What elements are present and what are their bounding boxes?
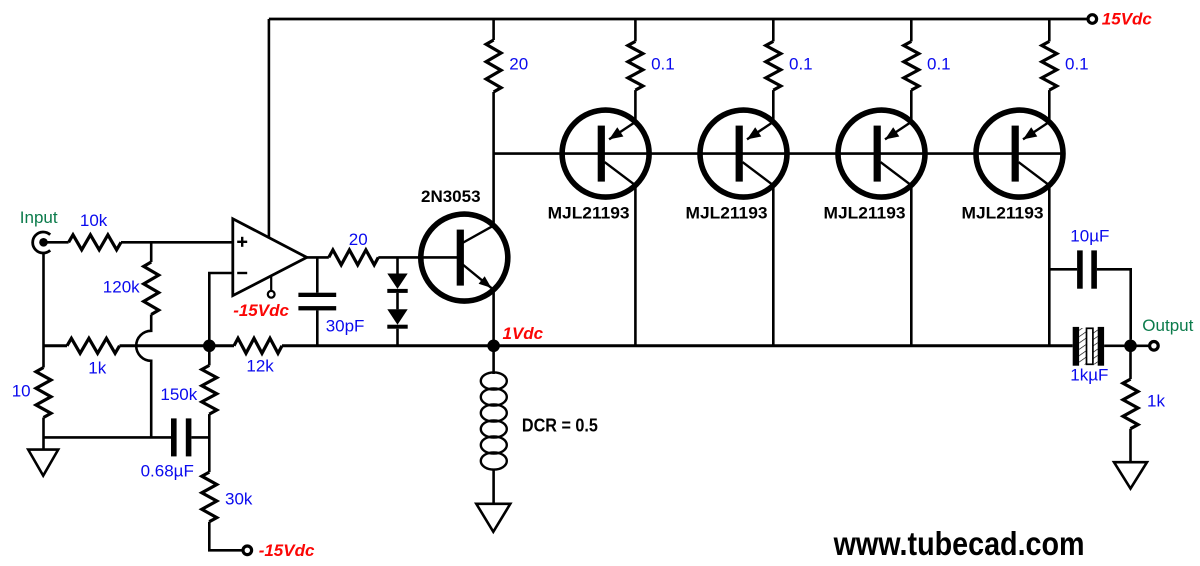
svg-text:0.1: 0.1 xyxy=(927,54,951,73)
resistor 0.1 #1 xyxy=(634,19,637,41)
transistor MJL21193 #3 xyxy=(838,110,925,197)
wire emitter #4 xyxy=(1048,90,1051,122)
capacitor 10uF xyxy=(1049,250,1130,339)
svg-text:12k: 12k xyxy=(246,357,274,376)
ground output xyxy=(1114,462,1147,488)
wire +15V top rail xyxy=(269,18,1087,21)
svg-text:120k: 120k xyxy=(103,278,140,297)
wire emitter #1 xyxy=(634,90,637,122)
resistor 20 top xyxy=(492,19,495,40)
wire 1k to ground xyxy=(1129,429,1132,463)
svg-text:10µF: 10µF xyxy=(1070,227,1109,246)
resistor 20 (base) xyxy=(329,250,379,265)
resistor 120k xyxy=(150,242,153,262)
wire input to 10k xyxy=(48,241,69,244)
wire collector #4 down xyxy=(1048,185,1051,346)
wire 0.68uF to 150k/30k junction xyxy=(191,436,209,439)
resistor 150k xyxy=(208,352,211,365)
wire 10 to ground xyxy=(42,418,45,450)
wire 150k to 30k xyxy=(208,414,211,472)
wire emitter #2 xyxy=(772,90,775,122)
svg-text:20: 20 xyxy=(349,230,368,249)
inductor L1 xyxy=(481,352,507,504)
svg-text:-15Vdc: -15Vdc xyxy=(259,541,315,560)
svg-text:30pF: 30pF xyxy=(326,316,365,335)
transistor MJL21193 #1 xyxy=(562,110,649,197)
svg-text:1kµF: 1kµF xyxy=(1070,366,1108,385)
wire op-amp minus input feedback xyxy=(209,273,233,346)
svg-text:0.1: 0.1 xyxy=(1065,54,1089,73)
resistor 0.1 #3 xyxy=(910,19,913,41)
wire 1kuF to output node xyxy=(1104,344,1150,347)
resistor 0.1 #4 xyxy=(1048,19,1051,41)
wire op-amp V+ drop xyxy=(268,19,271,238)
wire main output rail xyxy=(44,344,68,347)
svg-text:150k: 150k xyxy=(160,385,197,404)
svg-text:1k: 1k xyxy=(88,359,106,378)
svg-text:-15Vdc: -15Vdc xyxy=(233,301,289,320)
svg-text:10: 10 xyxy=(12,382,31,401)
diode D1 xyxy=(387,257,407,293)
resistor 30k xyxy=(202,472,217,522)
wire input jack down xyxy=(42,253,45,367)
node feedback xyxy=(203,340,216,353)
svg-text:Input: Input xyxy=(20,208,58,227)
wire Q1 collector up xyxy=(492,92,495,225)
wire collector #1 down xyxy=(634,185,637,346)
svg-text:Output: Output xyxy=(1142,316,1193,335)
svg-text:10k: 10k xyxy=(80,211,108,230)
wire 10k to op-amp + xyxy=(121,241,233,244)
svg-text:20: 20 xyxy=(509,54,528,73)
diode D2 xyxy=(387,293,407,346)
input jack xyxy=(33,232,51,253)
svg-text:30k: 30k xyxy=(225,490,253,509)
transistor MJL21193 #2 xyxy=(700,110,787,197)
svg-text:www.tubecad.com: www.tubecad.com xyxy=(833,525,1085,562)
op-amp V- pin xyxy=(270,277,272,292)
transistor MJL21193 #4 xyxy=(976,110,1063,197)
op-amp U1 xyxy=(233,219,307,296)
terminal -15Vdc bottom xyxy=(243,546,252,555)
node 1Vdc xyxy=(487,340,500,353)
transistor Q1 2N3053 xyxy=(421,214,508,301)
svg-text:15Vdc: 15Vdc xyxy=(1102,9,1153,28)
svg-text:1Vdc: 1Vdc xyxy=(503,324,544,343)
wire op-amp output xyxy=(307,256,329,259)
wire collector #3 down xyxy=(910,185,913,346)
svg-text:DCR = 0.5: DCR = 0.5 xyxy=(522,415,598,436)
ground inductor xyxy=(476,504,510,532)
resistor 12k xyxy=(234,338,282,353)
ground left xyxy=(28,450,58,476)
wire 20 to Q1 base xyxy=(378,256,458,259)
svg-text:0.68µF: 0.68µF xyxy=(141,461,194,480)
resistor 10k xyxy=(69,235,121,250)
svg-text:MJL21193: MJL21193 xyxy=(548,204,630,223)
wire Q1 emitter down xyxy=(492,290,495,346)
capacitor 1kuF electrolytic xyxy=(1073,327,1104,366)
wire 30k to -15Vdc terminal xyxy=(209,522,242,551)
wire ground line to 0.68uF xyxy=(44,436,172,439)
wire 120k hop over feedback line xyxy=(136,315,151,438)
wire collector #2 down xyxy=(772,185,775,346)
svg-text:0.1: 0.1 xyxy=(651,54,675,73)
svg-text:MJL21193: MJL21193 xyxy=(824,204,906,223)
svg-text:2N3053: 2N3053 xyxy=(421,187,481,206)
resistor 1k xyxy=(67,338,120,353)
capacitor 0.68uF xyxy=(171,418,191,456)
resistor 0.1 #2 xyxy=(772,19,775,41)
resistor 10 xyxy=(36,368,51,418)
terminal +15Vdc xyxy=(1088,15,1097,24)
resistor 1k output xyxy=(1129,352,1132,379)
node output xyxy=(1124,340,1137,353)
capacitor 30pF xyxy=(298,257,336,345)
wire emitter #3 xyxy=(910,90,913,122)
svg-text:1k: 1k xyxy=(1147,392,1165,411)
svg-text:MJL21193: MJL21193 xyxy=(962,204,1044,223)
wire base bus xyxy=(494,152,1063,155)
svg-text:MJL21193: MJL21193 xyxy=(686,204,768,223)
svg-text:0.1: 0.1 xyxy=(789,54,813,73)
terminal Output xyxy=(1150,342,1159,351)
